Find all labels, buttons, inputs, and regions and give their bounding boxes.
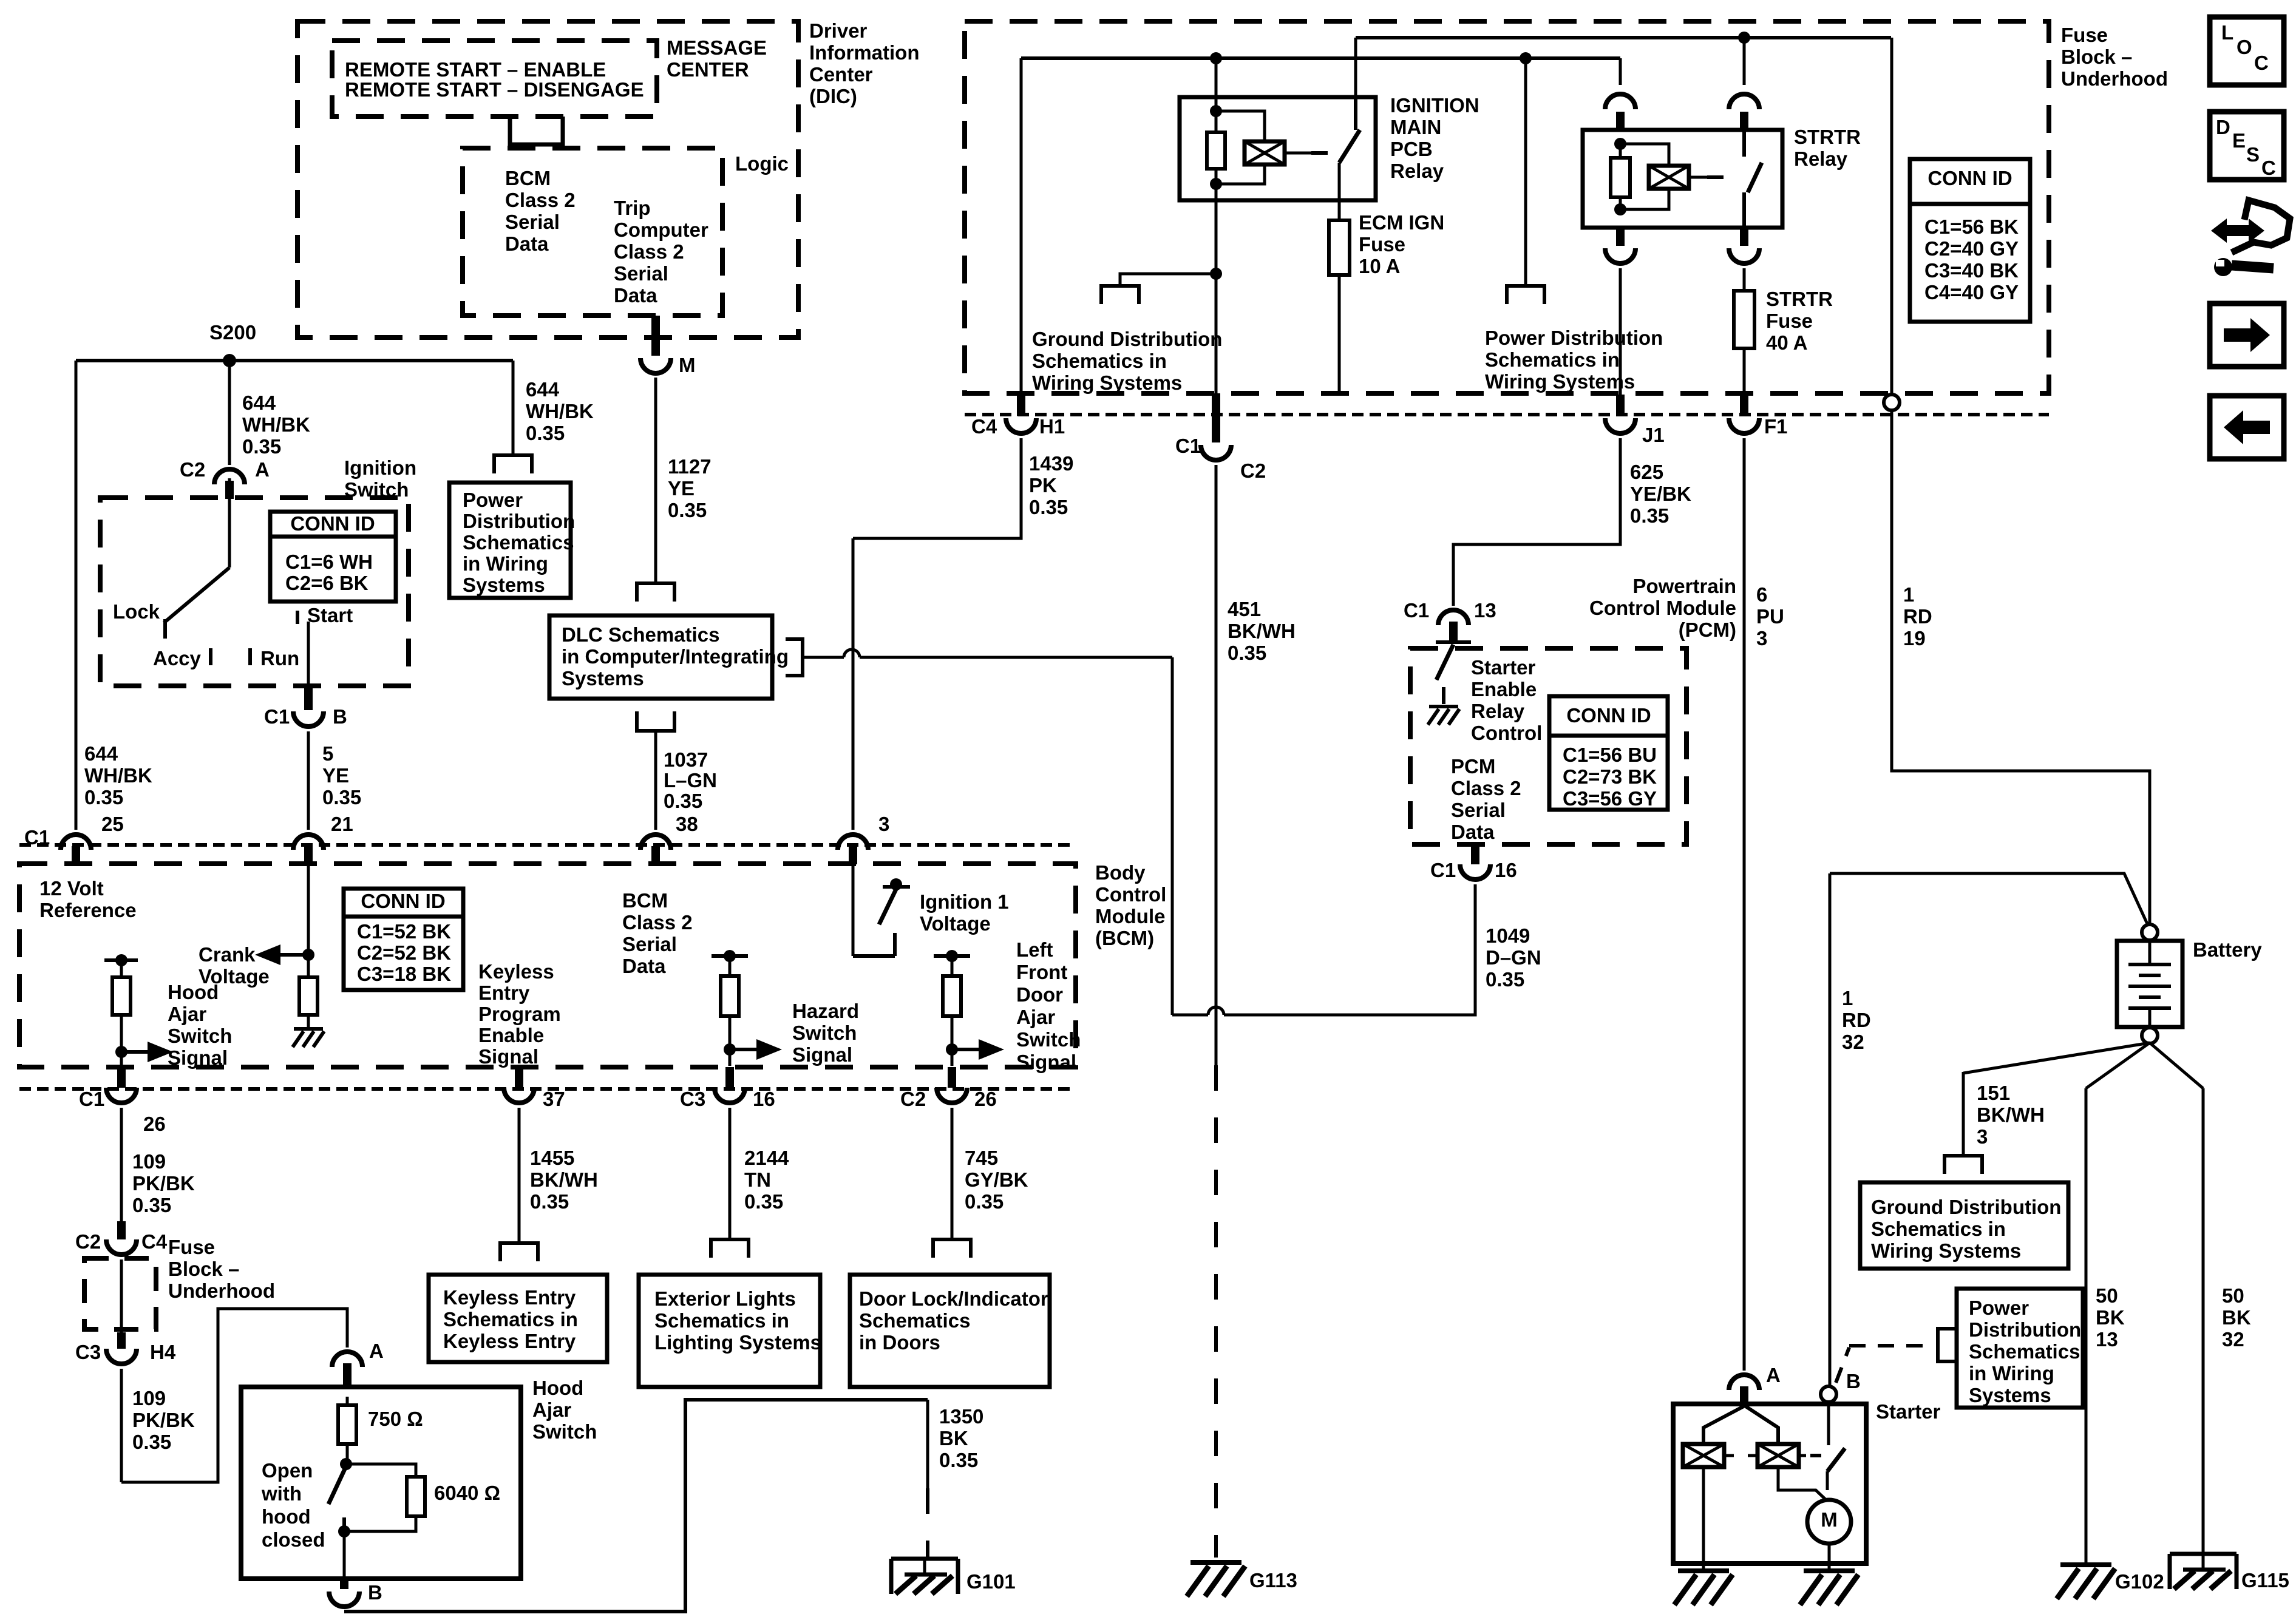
svg-text:C1: C1	[1430, 859, 1456, 881]
svg-text:C1: C1	[24, 826, 50, 849]
svg-text:0.35: 0.35	[132, 1194, 171, 1216]
svg-text:YE/BK: YE/BK	[1630, 483, 1691, 505]
svg-text:G101: G101	[966, 1570, 1016, 1593]
svg-text:Distribution: Distribution	[463, 510, 575, 532]
svg-text:GY/BK: GY/BK	[965, 1168, 1028, 1191]
svg-text:C2: C2	[180, 458, 205, 481]
svg-text:C2: C2	[75, 1230, 101, 1253]
svg-text:WH/BK: WH/BK	[526, 400, 594, 422]
svg-text:Switch: Switch	[168, 1025, 232, 1047]
svg-text:38: 38	[676, 813, 698, 835]
svg-text:1350: 1350	[939, 1405, 983, 1428]
svg-text:Power: Power	[463, 489, 523, 511]
svg-text:Keyless: Keyless	[478, 960, 554, 983]
svg-text:Hazard: Hazard	[792, 1000, 859, 1022]
svg-text:Class 2: Class 2	[614, 240, 684, 263]
svg-text:E: E	[2232, 129, 2246, 152]
svg-text:Fuse: Fuse	[2061, 24, 2108, 46]
svg-text:(PCM): (PCM)	[1679, 619, 1736, 641]
svg-text:CONN ID: CONN ID	[361, 890, 445, 912]
svg-text:G102: G102	[2115, 1570, 2164, 1593]
svg-text:Schematics in: Schematics in	[1871, 1218, 2006, 1240]
svg-text:IGNITION: IGNITION	[1390, 94, 1479, 117]
svg-text:G115: G115	[2241, 1569, 2289, 1592]
svg-text:Block –: Block –	[2061, 46, 2132, 68]
svg-text:C1: C1	[264, 705, 290, 728]
svg-text:in Wiring: in Wiring	[463, 552, 548, 575]
svg-text:Control: Control	[1471, 722, 1542, 744]
svg-text:0.35: 0.35	[132, 1431, 171, 1453]
svg-text:Ground Distribution: Ground Distribution	[1032, 328, 1222, 350]
svg-text:A: A	[1766, 1364, 1781, 1386]
svg-text:C4=40 GY: C4=40 GY	[1924, 281, 2019, 303]
svg-text:32: 32	[1842, 1031, 1864, 1053]
svg-text:Body: Body	[1095, 861, 1146, 884]
svg-text:C2=73 BK: C2=73 BK	[1563, 765, 1657, 788]
svg-text:0.35: 0.35	[84, 786, 123, 808]
svg-text:644: 644	[526, 378, 560, 401]
svg-text:REMOTE START – ENABLE: REMOTE START – ENABLE	[345, 58, 606, 81]
svg-text:BK: BK	[2096, 1306, 2125, 1329]
svg-text:Driver: Driver	[809, 19, 868, 42]
svg-text:with: with	[261, 1482, 302, 1505]
svg-text:C3=56 GY: C3=56 GY	[1563, 787, 1657, 810]
svg-text:C3=40 BK: C3=40 BK	[1924, 259, 2019, 282]
svg-text:Left: Left	[1016, 938, 1053, 961]
svg-text:Schematics: Schematics	[859, 1309, 970, 1332]
svg-text:Ground Distribution: Ground Distribution	[1871, 1196, 2061, 1218]
svg-text:0.35: 0.35	[1630, 504, 1669, 527]
svg-text:0.35: 0.35	[1029, 496, 1068, 518]
svg-text:REMOTE START – DISENGAGE: REMOTE START – DISENGAGE	[345, 78, 644, 101]
svg-text:12 Volt: 12 Volt	[39, 877, 104, 900]
svg-text:L: L	[2221, 21, 2233, 44]
svg-text:L–GN: L–GN	[664, 769, 717, 792]
svg-text:MESSAGE: MESSAGE	[667, 36, 767, 59]
svg-text:M: M	[679, 354, 696, 376]
svg-text:Program: Program	[478, 1003, 561, 1025]
svg-text:STRTR: STRTR	[1794, 126, 1861, 148]
svg-text:C2=40 GY: C2=40 GY	[1924, 237, 2019, 260]
svg-text:C1: C1	[79, 1088, 104, 1110]
svg-text:Wiring Systems: Wiring Systems	[1485, 370, 1635, 393]
svg-text:Ajar: Ajar	[1016, 1006, 1055, 1028]
svg-text:Computer: Computer	[614, 219, 708, 241]
svg-text:C1=6 WH: C1=6 WH	[285, 551, 373, 573]
svg-text:Starter: Starter	[1876, 1400, 1941, 1423]
svg-text:Switch: Switch	[532, 1420, 597, 1443]
svg-text:0.35: 0.35	[242, 435, 281, 458]
svg-text:MAIN: MAIN	[1390, 116, 1441, 138]
svg-text:CONN ID: CONN ID	[290, 512, 375, 535]
svg-text:C1=52 BK: C1=52 BK	[357, 920, 451, 943]
svg-text:BK/WH: BK/WH	[1228, 620, 1296, 642]
svg-text:B: B	[333, 705, 347, 728]
svg-text:Information: Information	[809, 41, 919, 64]
svg-text:0.35: 0.35	[530, 1190, 569, 1213]
svg-text:Data: Data	[614, 284, 657, 307]
svg-text:2144: 2144	[744, 1147, 789, 1169]
svg-text:hood: hood	[262, 1505, 311, 1528]
svg-text:Schematics in: Schematics in	[654, 1309, 789, 1332]
svg-text:PU: PU	[1756, 605, 1784, 628]
svg-text:109: 109	[132, 1387, 166, 1409]
svg-text:CONN ID: CONN ID	[1566, 704, 1651, 727]
svg-text:Ajar: Ajar	[532, 1398, 571, 1421]
svg-text:RD: RD	[1903, 605, 1932, 628]
svg-text:G113: G113	[1249, 1569, 1297, 1592]
svg-text:Powertrain: Powertrain	[1632, 575, 1736, 597]
svg-text:0.35: 0.35	[939, 1449, 978, 1471]
svg-text:Data: Data	[622, 955, 666, 977]
svg-text:Class 2: Class 2	[505, 189, 576, 211]
svg-text:40 A: 40 A	[1766, 331, 1807, 354]
svg-text:C2: C2	[900, 1088, 926, 1110]
svg-text:C3=18 BK: C3=18 BK	[357, 963, 451, 985]
svg-text:(DIC): (DIC)	[809, 85, 857, 107]
svg-text:Front: Front	[1016, 961, 1067, 983]
svg-text:C: C	[2261, 157, 2276, 179]
svg-text:O: O	[2237, 36, 2252, 58]
svg-text:26: 26	[974, 1088, 997, 1110]
svg-text:A: A	[255, 458, 270, 481]
svg-text:Open: Open	[262, 1459, 313, 1482]
svg-text:Distribution: Distribution	[1969, 1318, 2081, 1341]
svg-text:Power Distribution: Power Distribution	[1485, 327, 1663, 349]
svg-text:32: 32	[2222, 1328, 2244, 1351]
svg-text:STRTR: STRTR	[1766, 288, 1833, 310]
svg-text:H4: H4	[150, 1341, 176, 1363]
svg-text:26: 26	[143, 1113, 166, 1135]
svg-text:0.35: 0.35	[1486, 968, 1524, 991]
svg-text:109: 109	[132, 1150, 166, 1173]
svg-text:Enable: Enable	[478, 1024, 544, 1046]
svg-text:10 A: 10 A	[1359, 255, 1400, 277]
svg-text:BCM: BCM	[622, 889, 668, 912]
svg-text:Class 2: Class 2	[622, 911, 693, 934]
svg-text:C2=6 BK: C2=6 BK	[285, 572, 369, 594]
svg-text:Keyless Entry: Keyless Entry	[443, 1286, 576, 1309]
svg-text:Fuse: Fuse	[1766, 310, 1813, 332]
svg-text:3: 3	[1756, 627, 1767, 649]
svg-text:Relay: Relay	[1794, 147, 1848, 170]
svg-text:Serial: Serial	[622, 933, 677, 955]
svg-text:Data: Data	[1451, 821, 1495, 843]
svg-text:B: B	[368, 1581, 382, 1604]
svg-text:ECM IGN: ECM IGN	[1359, 211, 1444, 234]
svg-text:Systems: Systems	[1969, 1384, 2051, 1406]
svg-text:1439: 1439	[1029, 452, 1073, 475]
svg-text:Signal: Signal	[792, 1043, 852, 1066]
svg-text:1127: 1127	[668, 455, 712, 478]
svg-text:16: 16	[1495, 859, 1517, 881]
svg-text:BCM: BCM	[505, 167, 551, 189]
svg-text:Voltage: Voltage	[920, 912, 991, 935]
svg-text:Block –: Block –	[168, 1258, 239, 1280]
svg-text:0.35: 0.35	[744, 1190, 783, 1213]
svg-text:C4: C4	[141, 1230, 168, 1253]
svg-text:Underhood: Underhood	[2061, 67, 2168, 90]
svg-text:C1: C1	[1404, 599, 1429, 622]
svg-text:0.35: 0.35	[526, 422, 565, 444]
svg-text:Signal: Signal	[478, 1045, 538, 1068]
svg-text:25: 25	[101, 813, 124, 835]
svg-text:16: 16	[753, 1088, 775, 1110]
svg-text:19: 19	[1903, 627, 1926, 649]
svg-text:Signal: Signal	[1016, 1051, 1076, 1073]
svg-text:C: C	[2254, 52, 2269, 74]
svg-text:Signal: Signal	[168, 1046, 228, 1069]
svg-text:Wiring Systems: Wiring Systems	[1032, 371, 1182, 394]
svg-text:625: 625	[1630, 461, 1663, 483]
svg-text:PK/BK: PK/BK	[132, 1409, 195, 1431]
svg-text:3: 3	[1977, 1125, 1988, 1148]
svg-text:Hood: Hood	[168, 981, 219, 1003]
svg-text:Exterior Lights: Exterior Lights	[654, 1287, 796, 1310]
svg-text:F1: F1	[1764, 415, 1788, 438]
svg-text:TN: TN	[744, 1168, 771, 1191]
svg-text:Reference: Reference	[39, 899, 137, 921]
svg-text:0.35: 0.35	[965, 1190, 1004, 1213]
svg-text:Keyless Entry: Keyless Entry	[443, 1330, 576, 1352]
svg-text:(BCM): (BCM)	[1095, 927, 1154, 949]
svg-text:Serial: Serial	[614, 262, 668, 285]
svg-text:Schematics: Schematics	[463, 531, 574, 554]
svg-text:Battery: Battery	[2193, 938, 2262, 961]
svg-text:Run: Run	[260, 647, 299, 670]
svg-text:Center: Center	[809, 63, 873, 86]
svg-text:Power: Power	[1969, 1297, 2029, 1319]
svg-text:D: D	[2216, 116, 2230, 138]
svg-text:Schematics in: Schematics in	[443, 1308, 578, 1331]
svg-text:Switch: Switch	[1016, 1028, 1081, 1051]
svg-text:CONN ID: CONN ID	[1927, 167, 2012, 189]
svg-text:50: 50	[2096, 1284, 2118, 1307]
svg-text:6: 6	[1756, 583, 1767, 606]
svg-text:Serial: Serial	[505, 211, 560, 233]
svg-text:C2=52 BK: C2=52 BK	[357, 941, 451, 964]
svg-text:Fuse: Fuse	[1359, 233, 1405, 256]
svg-text:RD: RD	[1842, 1009, 1871, 1031]
svg-text:Lighting Systems: Lighting Systems	[654, 1331, 821, 1354]
svg-text:37: 37	[543, 1088, 565, 1110]
svg-text:13: 13	[1474, 599, 1496, 622]
svg-text:1037: 1037	[664, 748, 708, 771]
svg-text:Systems: Systems	[463, 574, 545, 596]
svg-text:CENTER: CENTER	[667, 58, 749, 81]
svg-text:Trip: Trip	[614, 197, 651, 219]
svg-text:C1: C1	[1175, 435, 1201, 457]
svg-text:13: 13	[2096, 1328, 2118, 1351]
svg-text:5: 5	[322, 742, 333, 765]
svg-text:D–GN: D–GN	[1486, 946, 1541, 969]
svg-text:Schematics in: Schematics in	[1032, 350, 1167, 372]
svg-text:1049: 1049	[1486, 924, 1530, 947]
svg-text:Control Module: Control Module	[1589, 597, 1736, 619]
svg-text:C1=56 BU: C1=56 BU	[1563, 744, 1657, 766]
svg-text:Module: Module	[1095, 905, 1165, 927]
svg-text:0.35: 0.35	[1228, 642, 1266, 664]
svg-text:Data: Data	[505, 232, 549, 255]
svg-text:A: A	[369, 1340, 384, 1362]
svg-text:Switch: Switch	[792, 1022, 857, 1044]
svg-text:Start: Start	[307, 604, 353, 626]
svg-text:Schematics in: Schematics in	[1485, 348, 1620, 371]
svg-text:Entry: Entry	[478, 981, 530, 1004]
svg-text:Ignition 1: Ignition 1	[920, 890, 1009, 913]
svg-text:451: 451	[1228, 598, 1261, 620]
svg-text:Relay: Relay	[1390, 160, 1444, 182]
svg-text:Class 2: Class 2	[1451, 777, 1521, 799]
svg-text:in Wiring: in Wiring	[1969, 1362, 2054, 1385]
svg-text:50: 50	[2222, 1284, 2244, 1307]
svg-text:WH/BK: WH/BK	[84, 764, 152, 787]
svg-text:C3: C3	[680, 1088, 705, 1110]
svg-text:1: 1	[1903, 583, 1914, 606]
svg-text:Systems: Systems	[562, 667, 644, 690]
svg-text:21: 21	[331, 813, 353, 835]
svg-text:Door Lock/Indicator: Door Lock/Indicator	[859, 1287, 1048, 1310]
svg-text:Wiring Systems: Wiring Systems	[1871, 1239, 2021, 1262]
svg-text:Crank: Crank	[199, 943, 256, 966]
svg-text:151: 151	[1977, 1082, 2010, 1104]
svg-text:WH/BK: WH/BK	[242, 413, 310, 436]
svg-text:in Doors: in Doors	[859, 1331, 940, 1354]
svg-text:1: 1	[1842, 987, 1853, 1009]
svg-text:Ajar: Ajar	[168, 1003, 206, 1025]
svg-text:C2: C2	[1240, 459, 1266, 482]
svg-text:PCB: PCB	[1390, 138, 1433, 160]
svg-text:Underhood: Underhood	[168, 1280, 275, 1302]
svg-text:Door: Door	[1016, 983, 1063, 1006]
svg-text:0.35: 0.35	[664, 790, 702, 812]
svg-text:Enable: Enable	[1471, 678, 1537, 700]
svg-text:M: M	[1821, 1508, 1838, 1531]
svg-text:0.35: 0.35	[322, 786, 361, 808]
svg-text:in Computer/Integrating: in Computer/Integrating	[562, 645, 789, 668]
svg-text:3: 3	[878, 813, 889, 835]
svg-text:Hood: Hood	[532, 1377, 583, 1399]
svg-text:Logic: Logic	[735, 152, 789, 175]
svg-text:PK: PK	[1029, 474, 1057, 497]
svg-text:Control: Control	[1095, 883, 1166, 906]
svg-text:S: S	[2246, 143, 2260, 166]
svg-text:BK: BK	[2222, 1306, 2251, 1329]
svg-text:Fuse: Fuse	[168, 1236, 215, 1258]
svg-text:Accy: Accy	[153, 647, 202, 670]
svg-text:6040 Ω: 6040 Ω	[434, 1482, 500, 1504]
svg-text:B: B	[1846, 1370, 1861, 1392]
svg-text:DLC Schematics: DLC Schematics	[562, 623, 719, 646]
svg-text:YE: YE	[668, 477, 695, 500]
svg-text:YE: YE	[322, 764, 349, 787]
svg-text:H1: H1	[1039, 415, 1065, 438]
svg-text:closed: closed	[262, 1528, 325, 1551]
svg-text:750 Ω: 750 Ω	[368, 1408, 423, 1430]
svg-text:Starter: Starter	[1471, 656, 1536, 679]
svg-text:745: 745	[965, 1147, 998, 1169]
svg-text:Schematics: Schematics	[1969, 1340, 2080, 1363]
svg-text:1455: 1455	[530, 1147, 574, 1169]
svg-text:PK/BK: PK/BK	[132, 1172, 195, 1195]
svg-text:PCM: PCM	[1451, 755, 1495, 778]
svg-text:Serial: Serial	[1451, 799, 1506, 821]
svg-text:Ignition: Ignition	[344, 456, 416, 479]
svg-text:0.35: 0.35	[668, 499, 707, 521]
svg-text:BK/WH: BK/WH	[530, 1168, 598, 1191]
svg-text:644: 644	[242, 392, 276, 414]
svg-text:S200: S200	[209, 321, 256, 344]
svg-text:BK: BK	[939, 1427, 968, 1449]
svg-text:J1: J1	[1642, 424, 1665, 446]
svg-text:C3: C3	[75, 1341, 101, 1363]
svg-text:BK/WH: BK/WH	[1977, 1103, 2045, 1126]
svg-text:C1=56 BK: C1=56 BK	[1924, 215, 2019, 238]
svg-text:Relay: Relay	[1471, 700, 1525, 722]
svg-text:Lock: Lock	[113, 600, 160, 623]
svg-text:644: 644	[84, 742, 118, 765]
svg-text:C4: C4	[971, 415, 997, 438]
